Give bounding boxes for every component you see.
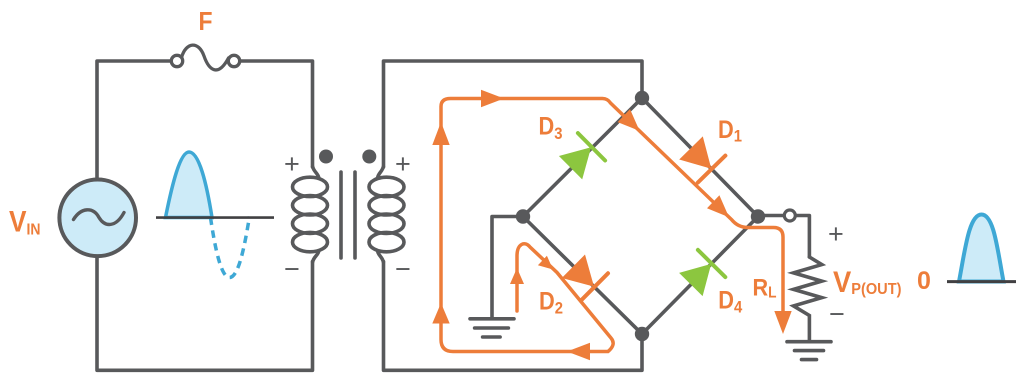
svg-text:D1: D1 bbox=[718, 116, 742, 146]
svg-text:0: 0 bbox=[917, 267, 931, 295]
svg-text:−: − bbox=[829, 299, 845, 329]
svg-text:D3: D3 bbox=[539, 113, 563, 144]
svg-text:D4: D4 bbox=[718, 286, 742, 316]
svg-text:+: + bbox=[284, 149, 300, 179]
svg-text:D2: D2 bbox=[539, 287, 563, 317]
svg-text:−: − bbox=[395, 254, 411, 284]
svg-text:VIN: VIN bbox=[9, 206, 41, 239]
svg-text:F: F bbox=[199, 6, 213, 36]
svg-text:+: + bbox=[828, 219, 844, 249]
svg-text:−: − bbox=[284, 254, 300, 284]
svg-text:VP(OUT): VP(OUT) bbox=[833, 266, 901, 299]
svg-text:+: + bbox=[395, 149, 411, 179]
svg-text:RL: RL bbox=[753, 274, 777, 301]
